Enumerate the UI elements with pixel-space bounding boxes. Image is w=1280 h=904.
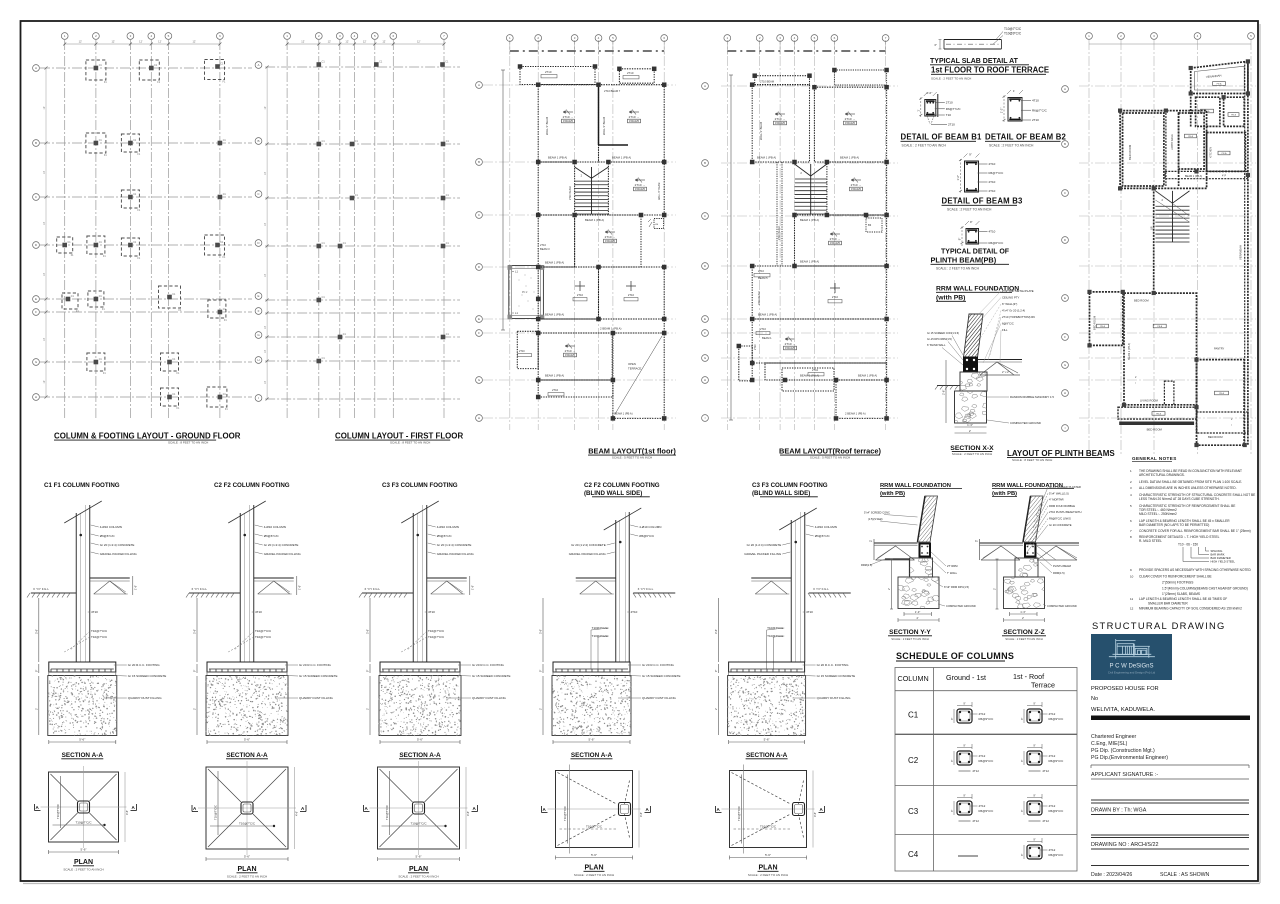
- svg-text:R6@7"C/C: R6@7"C/C: [1032, 108, 1048, 112]
- svg-text:3'-6": 3'-6": [366, 629, 370, 634]
- staircase: [591, 167, 593, 214]
- plinth bottom corridor band: [1118, 407, 1197, 419]
- plinth garage trapezoid: [1191, 61, 1248, 93]
- svg-text:R- MILD STEEL: R- MILD STEEL: [1139, 539, 1162, 543]
- svg-text:Gr 20 (1:2:4) CONCRETE: Gr 20 (1:2:4) CONCRETE: [264, 543, 299, 547]
- svg-text:LM: LM: [655, 224, 658, 226]
- grid lines horizontal: [40, 67, 252, 69]
- svg-text:E: E: [1064, 296, 1066, 300]
- svg-text:9": 9": [1033, 838, 1035, 842]
- svg-text:STRUCTURAL DRAWING: STRUCTURAL DRAWING: [1092, 620, 1226, 631]
- svg-text:BEAM 1 (PB A): BEAM 1 (PB A): [1128, 343, 1131, 360]
- svg-text:T10@7"C/C: T10@7"C/C: [767, 626, 784, 630]
- svg-text:12': 12': [111, 40, 115, 44]
- svg-text:9": 9": [1021, 854, 1024, 856]
- column section sketch: [1027, 845, 1042, 859]
- svg-text:R6@7"C/C: R6@7"C/C: [946, 107, 962, 111]
- column section sketch: [957, 709, 972, 723]
- svg-text:SECTION A-A: SECTION A-A: [399, 752, 441, 759]
- plinth bedroom1: [1123, 113, 1164, 186]
- svg-text:T10@7"C/C: T10@7"C/C: [1004, 27, 1022, 31]
- svg-text:Ø6@6"C/C: Ø6@6"C/C: [264, 534, 280, 538]
- svg-text:T10@7"C/C: T10@7"C/C: [255, 629, 272, 633]
- porch columns: [508, 265, 513, 270]
- svg-text:LOBBY AREA: LOBBY AREA: [1171, 134, 1174, 150]
- svg-text:SCALE : AS SHOWN: SCALE : AS SHOWN: [1160, 872, 1210, 878]
- svg-text:4T10: 4T10: [1032, 99, 1039, 103]
- svg-text:RRM(1:5): RRM(1:5): [1053, 571, 1065, 575]
- svg-text:BED ROOM: BED ROOM: [1134, 299, 1149, 303]
- svg-text:B: B: [35, 141, 37, 145]
- svg-text:9": 9": [1021, 760, 1024, 762]
- svg-text:QUARRY DUST FILLING: QUARRY DUST FILLING: [472, 696, 507, 700]
- grid bubbles top: [284, 33, 291, 40]
- beam plan2 columns: [750, 82, 755, 87]
- svg-text:COMPACTED GROUND: COMPACTED GROUND: [1047, 604, 1077, 608]
- svg-text:12': 12': [301, 40, 305, 44]
- left dimension chain: [45, 68, 47, 397]
- plinth toilet: [1179, 113, 1205, 169]
- footing block: [49, 662, 116, 672]
- svg-text:150x225: 150x225: [563, 119, 574, 123]
- beam plan2 left dim: [730, 75, 732, 420]
- svg-text:Gr-15 SCREED PLASTER: Gr-15 SCREED PLASTER: [1049, 485, 1081, 489]
- svg-text:F: F: [258, 309, 260, 313]
- plan wall line: [569, 765, 571, 854]
- svg-text:Gr 15 SCREED CONCRETE: Gr 15 SCREED CONCRETE: [299, 674, 338, 678]
- svg-text:T10 - 06 - 150: T10 - 06 - 150: [1178, 543, 1198, 547]
- svg-text:Gr-15 DPC RRM(1:5): Gr-15 DPC RRM(1:5): [927, 337, 952, 341]
- svg-text:DETAIL OF BEAM B1: DETAIL OF BEAM B1: [901, 133, 983, 142]
- plan diagonals: [208, 769, 241, 802]
- svg-text:GRAVEL PACKED FILLING: GRAVEL PACKED FILLING: [437, 552, 475, 556]
- svg-text:9": 9": [1033, 744, 1035, 748]
- svg-text:(1:5)(S.Wall): (1:5)(S.Wall): [868, 517, 883, 521]
- svg-text:2T10: 2T10: [760, 327, 766, 331]
- svg-text:SCALE : 5 FEET TO AN INCH: SCALE : 5 FEET TO AN INCH: [810, 456, 850, 460]
- plinth kitchen room: [1224, 97, 1245, 126]
- svg-text:2T10: 2T10: [628, 293, 635, 297]
- svg-text:GRAVEL PACKED FILLING: GRAVEL PACKED FILLING: [100, 552, 138, 556]
- svg-text:BEAM 1 (PB A): BEAM 1 (PB A): [800, 218, 819, 222]
- svg-text:T10@7"C/C: T10@7"C/C: [385, 805, 389, 820]
- slab right dim: [132, 576, 134, 595]
- plan bottom dim: [49, 851, 119, 853]
- beam plan1 grid: [509, 40, 511, 430]
- svg-text:LAP LENGTH & BEARING LENGTH SH: LAP LENGTH & BEARING LENGTH SHALL BE 45 …: [1139, 597, 1227, 601]
- svg-text:A: A: [35, 66, 37, 70]
- svg-text:3'-6": 3'-6": [34, 629, 38, 634]
- fill hatch right: [1037, 546, 1077, 560]
- plinth right band: [1197, 412, 1248, 433]
- svg-text:10': 10': [264, 349, 267, 353]
- svg-text:11: 11: [1130, 597, 1133, 601]
- svg-text:6" BLIND WALL: 6" BLIND WALL: [927, 343, 946, 347]
- svg-text:QUARRY DUST FILLING: QUARRY DUST FILLING: [128, 696, 163, 700]
- svg-text:2"-3" THK METAL/PLATE: 2"-3" THK METAL/PLATE: [1002, 289, 1034, 293]
- svg-text:✶ Y/Y F.G.L: ✶ Y/Y F.G.L: [33, 587, 49, 591]
- svg-text:H: H: [257, 358, 259, 362]
- svg-text:SCALE : 2 FEET TO AN INCH: SCALE : 2 FEET TO AN INCH: [952, 452, 992, 456]
- svg-text:5'-6": 5'-6": [765, 853, 771, 857]
- svg-text:PLAN: PLAN: [237, 866, 256, 873]
- svg-text:4-Ø10 COLUMN: 4-Ø10 COLUMN: [639, 525, 661, 529]
- svg-text:150x225: 150x225: [775, 121, 786, 125]
- svg-text:SECTION X-X: SECTION X-X: [950, 445, 994, 452]
- plinth bedroom2 small left: [1090, 292, 1123, 346]
- svg-text:B: B: [257, 139, 259, 143]
- svg-text:SCALE : 2 FEET TO AN INCH: SCALE : 2 FEET TO AN INCH: [574, 873, 614, 877]
- svg-text:SCHEDULE OF COLUMNS: SCHEDULE OF COLUMNS: [896, 651, 1014, 661]
- svg-text:H: H: [1064, 391, 1066, 395]
- svg-text:BEAM 1: BEAM 1: [762, 336, 772, 340]
- svg-text:12': 12': [139, 40, 143, 44]
- svg-text:B: B: [478, 160, 480, 164]
- footing block: [380, 662, 460, 672]
- plan diagonals dashed: [558, 773, 617, 805]
- svg-text:2T12: 2T12: [973, 769, 980, 773]
- svg-text:150x225: 150x225: [785, 346, 796, 350]
- svg-text:T10@7"C/C: T10@7"C/C: [214, 805, 218, 820]
- svg-text:SECTION A-A: SECTION A-A: [226, 752, 268, 759]
- svg-text:150x225: 150x225: [565, 353, 576, 357]
- svg-text:A: A: [1064, 87, 1066, 91]
- svg-text:10': 10': [264, 325, 267, 329]
- svg-text:SCALE : 2 FEET TO AN INCH: SCALE : 2 FEET TO AN INCH: [947, 208, 992, 212]
- svg-text:10': 10': [43, 380, 46, 384]
- floor end ticks: [873, 539, 875, 560]
- left dims: [542, 598, 544, 662]
- svg-text:150x225: 150x225: [605, 239, 616, 243]
- column markers: [317, 62, 322, 67]
- svg-text:GRAVEL PACKED FILLING: GRAVEL PACKED FILLING: [264, 552, 302, 556]
- svg-text:R6@9"C/C: R6@9"C/C: [979, 717, 995, 721]
- section X-X rubble upper: [960, 372, 987, 391]
- section X-X dims: [955, 426, 987, 428]
- svg-text:FILL: FILL: [1002, 328, 1008, 332]
- svg-text:9": 9": [963, 744, 965, 748]
- svg-text:2T10: 2T10: [946, 101, 953, 105]
- typical slab detail: [944, 39, 1001, 41]
- svg-text:C4: C4: [908, 850, 919, 859]
- svg-text:9": 9": [194, 670, 197, 672]
- svg-text:5'-6": 5'-6": [244, 855, 250, 859]
- fill hatch left: [981, 546, 1020, 560]
- svg-text:150x225: 150x225: [830, 241, 841, 245]
- svg-text:PLAN: PLAN: [409, 866, 428, 873]
- svg-text:3'-6": 3'-6": [193, 629, 197, 634]
- svg-text:Ø6@6"C/C: Ø6@6"C/C: [815, 534, 831, 538]
- svg-text:H: H: [704, 378, 706, 382]
- svg-text:Gr 15 SCREED CONCRETE: Gr 15 SCREED CONCRETE: [472, 674, 511, 678]
- svg-text:C3 F3 COLUMN FOOTING: C3 F3 COLUMN FOOTING: [382, 482, 458, 489]
- svg-text:LAYOUT OF PLINTH BEAMS: LAYOUT OF PLINTH BEAMS: [1007, 449, 1115, 458]
- svg-text:PLINTH BEAM(PB): PLINTH BEAM(PB): [931, 256, 997, 265]
- floor slab: [751, 577, 791, 579]
- svg-text:2T10 BEAM: 2T10 BEAM: [569, 187, 572, 200]
- svg-text:F: F: [478, 331, 480, 335]
- svg-text:2T' RRM: 2T' RRM: [947, 564, 958, 568]
- svg-text:ALL DIMENSIONS ARE IN INCHES U: ALL DIMENSIONS ARE IN INCHES UNLESS OTHE…: [1139, 486, 1237, 490]
- svg-text:10': 10': [43, 106, 46, 110]
- svg-text:SCALE : 8 FEET TO AN INCH: SCALE : 8 FEET TO AN INCH: [390, 441, 430, 445]
- svg-text:DRAWN BY : Th: WGA: DRAWN BY : Th: WGA: [1091, 808, 1147, 814]
- svg-text:QUARRY DUST FILLING: QUARRY DUST FILLING: [642, 696, 677, 700]
- plinth beam: [1025, 544, 1036, 557]
- svg-text:BEAM 3: BEAM 3: [540, 247, 550, 251]
- svg-text:PLAN: PLAN: [74, 859, 93, 866]
- svg-text:T10: T10: [946, 113, 952, 117]
- plinth column squares: [1118, 109, 1122, 113]
- svg-text:PB A: PB A: [1156, 413, 1161, 416]
- dimension line top: [65, 43, 220, 45]
- svg-text:SECTION A-A: SECTION A-A: [571, 752, 613, 759]
- svg-text:Gr 20 R.C.C. FOOTING: Gr 20 R.C.C. FOOTING: [472, 663, 505, 667]
- svg-text:BEAM 1 (PB A): BEAM 1 (PB A): [840, 156, 859, 160]
- svg-text:B: B: [1064, 142, 1066, 146]
- column break line: [228, 501, 266, 523]
- svg-text:T10@7"C/C: T10@7"C/C: [592, 634, 609, 638]
- wall hatched: [1023, 496, 1043, 542]
- svg-text:9": 9": [969, 153, 972, 157]
- svg-text:Civil Engineering and Design (: Civil Engineering and Design (Pvt) Ltd: [1108, 671, 1156, 675]
- svg-text:Gr 20 R.C.C. FOOTING: Gr 20 R.C.C. FOOTING: [128, 663, 161, 667]
- plan bottom dim: [730, 857, 807, 859]
- svg-text:BED ROOM: BED ROOM: [1208, 435, 1223, 439]
- svg-text:BED ROOM: BED ROOM: [1093, 316, 1097, 330]
- detail of beam B3: [965, 161, 979, 192]
- svg-text:TYPICAL SLAB DETAIL AT: TYPICAL SLAB DETAIL AT: [930, 58, 1019, 65]
- svg-text:E: E: [35, 297, 37, 301]
- plinth internal stub wall: [1164, 381, 1174, 405]
- svg-text:9": 9": [958, 238, 962, 241]
- svg-text:2T10 →: 2T10 →: [830, 237, 841, 241]
- svg-text:↕: ↕: [1135, 382, 1136, 385]
- ground line: [633, 592, 675, 594]
- svg-text:GRAVEL PACKED FILLING: GRAVEL PACKED FILLING: [744, 552, 782, 556]
- svg-text:SCALE : 2 FEET TO AN INCH: SCALE : 2 FEET TO AN INCH: [748, 873, 788, 877]
- svg-text:MINIMUM BEARING CAPACITY OF SO: MINIMUM BEARING CAPACITY OF SOIL CONSIDE…: [1139, 607, 1242, 611]
- svg-text:1'-6": 1'-6": [926, 91, 932, 95]
- svg-text:4T10: 4T10: [631, 610, 638, 614]
- plan center lines: [83, 766, 85, 848]
- slab right dim: [296, 576, 298, 595]
- beam plan1 top bubbles: [506, 35, 513, 42]
- cross mark room1: [575, 285, 585, 287]
- svg-text:Gr 15 SCREED CONCRETE: Gr 15 SCREED CONCRETE: [642, 674, 681, 678]
- svg-text:9": 9": [951, 760, 954, 762]
- svg-text:3'-6": 3'-6": [539, 629, 543, 634]
- plan bottom dim: [378, 858, 460, 860]
- svg-text:1"(25mm) SLABS, BEAMS: 1"(25mm) SLABS, BEAMS: [1162, 592, 1200, 596]
- column shaft: [790, 520, 792, 662]
- svg-text:2T12: 2T12: [973, 819, 980, 823]
- plan diagonals: [51, 774, 78, 801]
- svg-text:4T12: 4T12: [1049, 804, 1056, 808]
- svg-text:2T10 →: 2T10 →: [563, 115, 574, 119]
- svg-text:E: E: [704, 317, 706, 321]
- footing bottom dim: [729, 741, 805, 743]
- svg-text:2T10 →: 2T10 →: [845, 117, 856, 121]
- svg-text:PB A: PB A: [1188, 135, 1193, 138]
- plinth wall store-left: [1190, 94, 1192, 128]
- svg-text:R6@9"C/C: R6@9"C/C: [1049, 853, 1065, 857]
- ground line: [809, 592, 851, 594]
- svg-text:RRM(1:5): RRM(1:5): [861, 563, 872, 567]
- foundation dims: [904, 613, 932, 615]
- svg-text:✶ Y/Y F.G.L: ✶ Y/Y F.G.L: [364, 587, 380, 591]
- svg-text:PANTRY: PANTRY: [1214, 347, 1225, 351]
- beam plan2 top bubbles: [724, 35, 731, 42]
- svg-text:4'-6": 4'-6": [295, 811, 299, 816]
- plinth main block outline: [1120, 111, 1207, 189]
- ground line: [189, 592, 240, 594]
- svg-text:DETAIL OF BEAM B3: DETAIL OF BEAM B3: [942, 197, 1024, 206]
- section X-X ground line: [937, 385, 960, 387]
- svg-text:A: A: [704, 84, 706, 88]
- column section sketch: [1027, 751, 1042, 765]
- svg-text:2T10: 2T10: [552, 388, 559, 392]
- svg-text:5'-6": 5'-6": [417, 738, 423, 742]
- slab right dim: [469, 576, 471, 595]
- svg-text:Gr 15 SCREED CON(1:3:6): Gr 15 SCREED CON(1:3:6): [927, 331, 959, 335]
- svg-text:DETAIL OF BEAM B2: DETAIL OF BEAM B2: [985, 133, 1067, 142]
- rubble foundation upper: [1015, 558, 1038, 577]
- svg-text:1'-3": 1'-3": [967, 423, 973, 427]
- svg-text:E: E: [257, 294, 259, 298]
- date scale box: [1091, 865, 1249, 867]
- left vertical dim: [996, 559, 998, 609]
- plan bottom dim: [556, 857, 633, 859]
- section X-X rubble lower: [955, 391, 987, 423]
- svg-text:VERANDAH: VERANDAH: [1239, 245, 1243, 260]
- svg-text:Gr 20 (1:2:4) CONCRETE: Gr 20 (1:2:4) CONCRETE: [571, 543, 606, 547]
- plinth garage right tall room: [1197, 360, 1245, 446]
- footing bottom dim: [207, 741, 287, 743]
- plinth corridor band: [1165, 171, 1248, 178]
- svg-text:4-Ø10 COLUMN: 4-Ø10 COLUMN: [264, 525, 286, 529]
- svg-text:SCALE : 2 FEET TO AN INCH: SCALE : 2 FEET TO AN INCH: [1005, 637, 1043, 641]
- floor slab: [254, 577, 294, 579]
- plinth left bubbles: [1062, 86, 1069, 93]
- plan right dim: [294, 767, 296, 849]
- svg-text:BED ROOM: BED ROOM: [1147, 428, 1163, 432]
- svg-text:9": 9": [963, 702, 965, 706]
- floor slab: [427, 577, 467, 579]
- svg-text:PG Dip. (Construction Mgt.): PG Dip. (Construction Mgt.): [1091, 748, 1155, 754]
- excavation step profile: [885, 558, 910, 560]
- footing outlines: [86, 60, 106, 80]
- svg-text:Gr 20 CONCRETE: Gr 20 CONCRETE: [1049, 523, 1072, 527]
- foundation dims: [1010, 613, 1038, 615]
- svg-text:SCALE : 2 FEET TO AN INCH: SCALE : 2 FEET TO AN INCH: [891, 637, 929, 641]
- footing block: [553, 662, 630, 672]
- svg-text:Ø6@6"C/C: Ø6@6"C/C: [437, 534, 453, 538]
- svg-text:6": 6": [934, 43, 937, 47]
- svg-text:9": 9": [951, 718, 954, 720]
- svg-text:PROVIDE SPACERS AS NECESSARY W: PROVIDE SPACERS AS NECESSARY WITH SPACIN…: [1139, 568, 1252, 572]
- grid bubbles top: [61, 33, 68, 40]
- grid lines horizontal: [265, 66, 460, 68]
- plan column: [78, 801, 90, 813]
- svg-text:C1: C1: [908, 711, 919, 720]
- porch double wall: [509, 266, 544, 319]
- svg-text:2T10 (TOP&BOTTOM) R6: 2T10 (TOP&BOTTOM) R6: [1002, 315, 1035, 319]
- beam plan1 columns: [536, 82, 541, 87]
- svg-text:Gr 20 R.C.C. FOOTING: Gr 20 R.C.C. FOOTING: [642, 663, 675, 667]
- column break line: [604, 508, 642, 530]
- svg-text:2T10 →: 2T10 →: [629, 115, 640, 119]
- svg-text:150x225: 150x225: [845, 121, 856, 125]
- svg-text:2T12: 2T12: [1043, 819, 1050, 823]
- svg-text:1'-6": 1'-6": [470, 585, 474, 590]
- svg-text:F: F: [704, 331, 706, 335]
- svg-text:5'-6": 5'-6": [81, 848, 87, 852]
- column break line: [779, 508, 817, 530]
- svg-text:3'-6": 3'-6": [714, 629, 718, 634]
- beam plan1 left dim line: [502, 70, 504, 330]
- column shaft: [615, 520, 617, 662]
- svg-text:C.Eng, MIE(SL): C.Eng, MIE(SL): [1091, 741, 1128, 747]
- svg-text:BEAM LAYOUT(Roof terrace): BEAM LAYOUT(Roof terrace): [779, 447, 882, 456]
- svg-text:4T12: 4T12: [1049, 848, 1056, 852]
- beam plan2 rooms: [755, 76, 810, 85]
- svg-text:4"x4" Gr 20 (1:2:4): 4"x4" Gr 20 (1:2:4): [1002, 309, 1025, 313]
- svg-text:150x225: 150x225: [635, 187, 646, 191]
- svg-text:5'-6": 5'-6": [589, 738, 595, 742]
- svg-text:4T10: 4T10: [806, 610, 813, 614]
- beam plan1 left bubbles: [476, 82, 483, 89]
- svg-text:2T10 →: 2T10 →: [785, 342, 796, 346]
- svg-text:10': 10': [264, 222, 267, 226]
- left dims: [38, 598, 40, 662]
- svg-text:APPLICANT SIGNATURE :-: APPLICANT SIGNATURE :-: [1091, 772, 1158, 778]
- plan wall line: [743, 765, 745, 854]
- svg-text:Ø6@6"C/C: Ø6@6"C/C: [100, 534, 116, 538]
- svg-text:2 BEAM 1 (PB A): 2 BEAM 1 (PB A): [612, 412, 633, 416]
- svg-text:SCALE : 2 FEET TO AN INCH: SCALE : 2 FEET TO AN INCH: [398, 875, 438, 879]
- svg-text:BEAM 1 (PB A): BEAM 1 (PB A): [545, 313, 564, 317]
- svg-text:12': 12': [363, 40, 367, 44]
- plan diagonals: [380, 769, 413, 802]
- svg-text:12': 12': [328, 40, 332, 44]
- section X-X floor: [978, 359, 1023, 361]
- detail of beam B2: [1008, 98, 1022, 122]
- section X-X plinth beam: [964, 357, 978, 372]
- plinth stair wall: [1153, 188, 1155, 293]
- logo house icon: [1109, 639, 1155, 659]
- plan right dim: [465, 767, 467, 849]
- grid bubbles left: [33, 65, 40, 72]
- svg-text:R6@6"C/C: R6@6"C/C: [989, 241, 1005, 245]
- svg-text:PLAN: PLAN: [758, 865, 777, 872]
- svg-text:Chartered Engineer: Chartered Engineer: [1091, 734, 1137, 740]
- left vertical dim: [891, 559, 893, 609]
- svg-text:1'-3": 1'-3": [915, 610, 921, 614]
- column section sketch: [957, 801, 972, 815]
- svg-text:6@9"C/C: 6@9"C/C: [1002, 322, 1014, 326]
- svg-text:WALL 9" BEAM: WALL 9" BEAM: [602, 117, 606, 135]
- svg-text:10': 10': [264, 171, 267, 175]
- svg-text:9": 9": [715, 670, 718, 672]
- svg-text:R6@9"C/C: R6@9"C/C: [1049, 809, 1065, 813]
- svg-text:PLAN: PLAN: [584, 865, 603, 872]
- svg-text:B: B: [704, 161, 706, 165]
- cross mark roof room: [830, 287, 840, 289]
- footing bottom dim: [553, 741, 630, 743]
- plinth grid: [1088, 40, 1090, 455]
- plan right dim: [812, 771, 814, 848]
